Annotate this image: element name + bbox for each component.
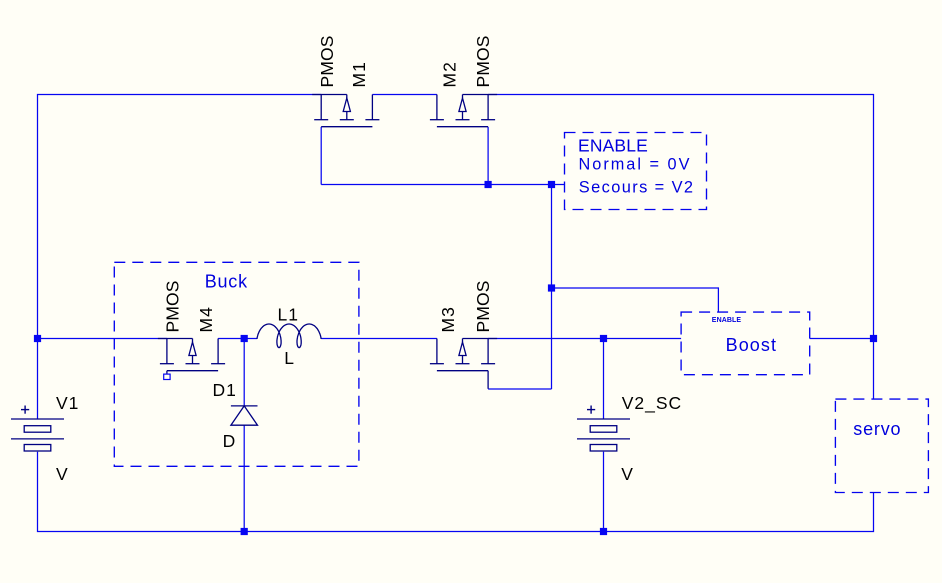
wire M4 drain to node A [218,338,257,340]
wire left rail + top rail left segment [38,95,322,420]
node junction ENABLE net vertical [548,181,555,188]
plus sign V2_SC [587,406,595,414]
wire ENABLE net horizontal to ENABLE box [321,184,564,186]
wire L1 right end to M3 drain [321,338,437,340]
wire top rail between M1 and M2 [372,94,437,96]
Buck subcircuit box [114,262,359,466]
inductor L1 [257,324,321,348]
svg-text:M2: M2 [440,61,460,87]
Boost subcircuit box [681,312,810,375]
ENABLE annotation box [565,133,707,210]
node junction V1/middle rail [34,335,41,342]
svg-text:Buck: Buck [205,272,248,292]
wire node A down to D1 cathode [243,339,245,406]
svg-text:V: V [621,464,634,484]
svg-text:ENABLE: ENABLE [712,317,742,324]
wire V1 bottom + bottom rail + servo bottom [38,452,874,532]
svg-text:L1: L1 [278,304,299,324]
svg-text:V2_SC: V2_SC [622,393,682,414]
M4 unconnected gate pin marker [164,374,170,379]
wire ENABLE node to Boost enable pin [552,288,719,312]
svg-text:ENABLE: ENABLE [578,136,648,156]
battery V2_SC [577,419,630,451]
node junction V2 / middle rail [600,335,607,342]
plus sign V1 [21,406,29,414]
node junction V2_SC / bottom rail [600,528,607,535]
svg-text:PMOS: PMOS [473,280,493,332]
svg-text:V: V [56,464,69,484]
node A junction (buck switch node) [241,335,248,342]
svg-text:L: L [284,348,295,368]
transistor M1 (PMOS) [312,95,379,127]
svg-text:servo: servo [853,419,901,439]
wire ENABLE net vertical [551,185,553,390]
wire M3 gate link [488,388,551,390]
svg-text:M3: M3 [438,306,458,332]
svg-text:Secours = V2: Secours = V2 [579,178,695,196]
wire top rail right segment + right rail down to Boost output node [488,95,873,339]
node junction Boost out / right rail [870,335,877,342]
svg-text:M4: M4 [196,306,216,332]
wire V2 node down to V2_SC battery [603,339,605,420]
wire M2 gate drop [487,127,489,185]
wire V2_SC battery to bottom rail [603,452,605,532]
node junction D1 / bottom rail [241,528,248,535]
transistor M3 (PMOS) [430,339,497,389]
wire right rail node to servo top [873,339,875,400]
svg-text:D1: D1 [213,380,237,400]
wire middle rail V1 node to M4 source [38,338,167,340]
svg-text:D: D [223,431,237,451]
servo subcircuit box [835,399,928,492]
diode D1 [231,406,258,425]
svg-text:Normal = 0V: Normal = 0V [579,155,692,173]
svg-text:V1: V1 [56,393,79,413]
wire D1 anode down to bottom rail [243,425,245,531]
battery V1 [11,419,64,451]
wire M3 source to V2 node to Boost input [488,338,681,340]
node junction ENABLE to Boost [548,284,555,291]
svg-text:PMOS: PMOS [317,35,337,87]
svg-text:PMOS: PMOS [163,280,183,332]
svg-text:PMOS: PMOS [473,35,493,87]
transistor M4 (PMOS) [158,339,225,374]
node junction M2 gate / ENABLE net [485,181,492,188]
wire M1 gate drop [320,127,322,185]
wire Boost output to right rail [810,338,874,340]
svg-text:M1: M1 [349,61,369,87]
transistor M2 (PMOS) [430,95,497,127]
svg-text:Boost: Boost [726,335,778,355]
